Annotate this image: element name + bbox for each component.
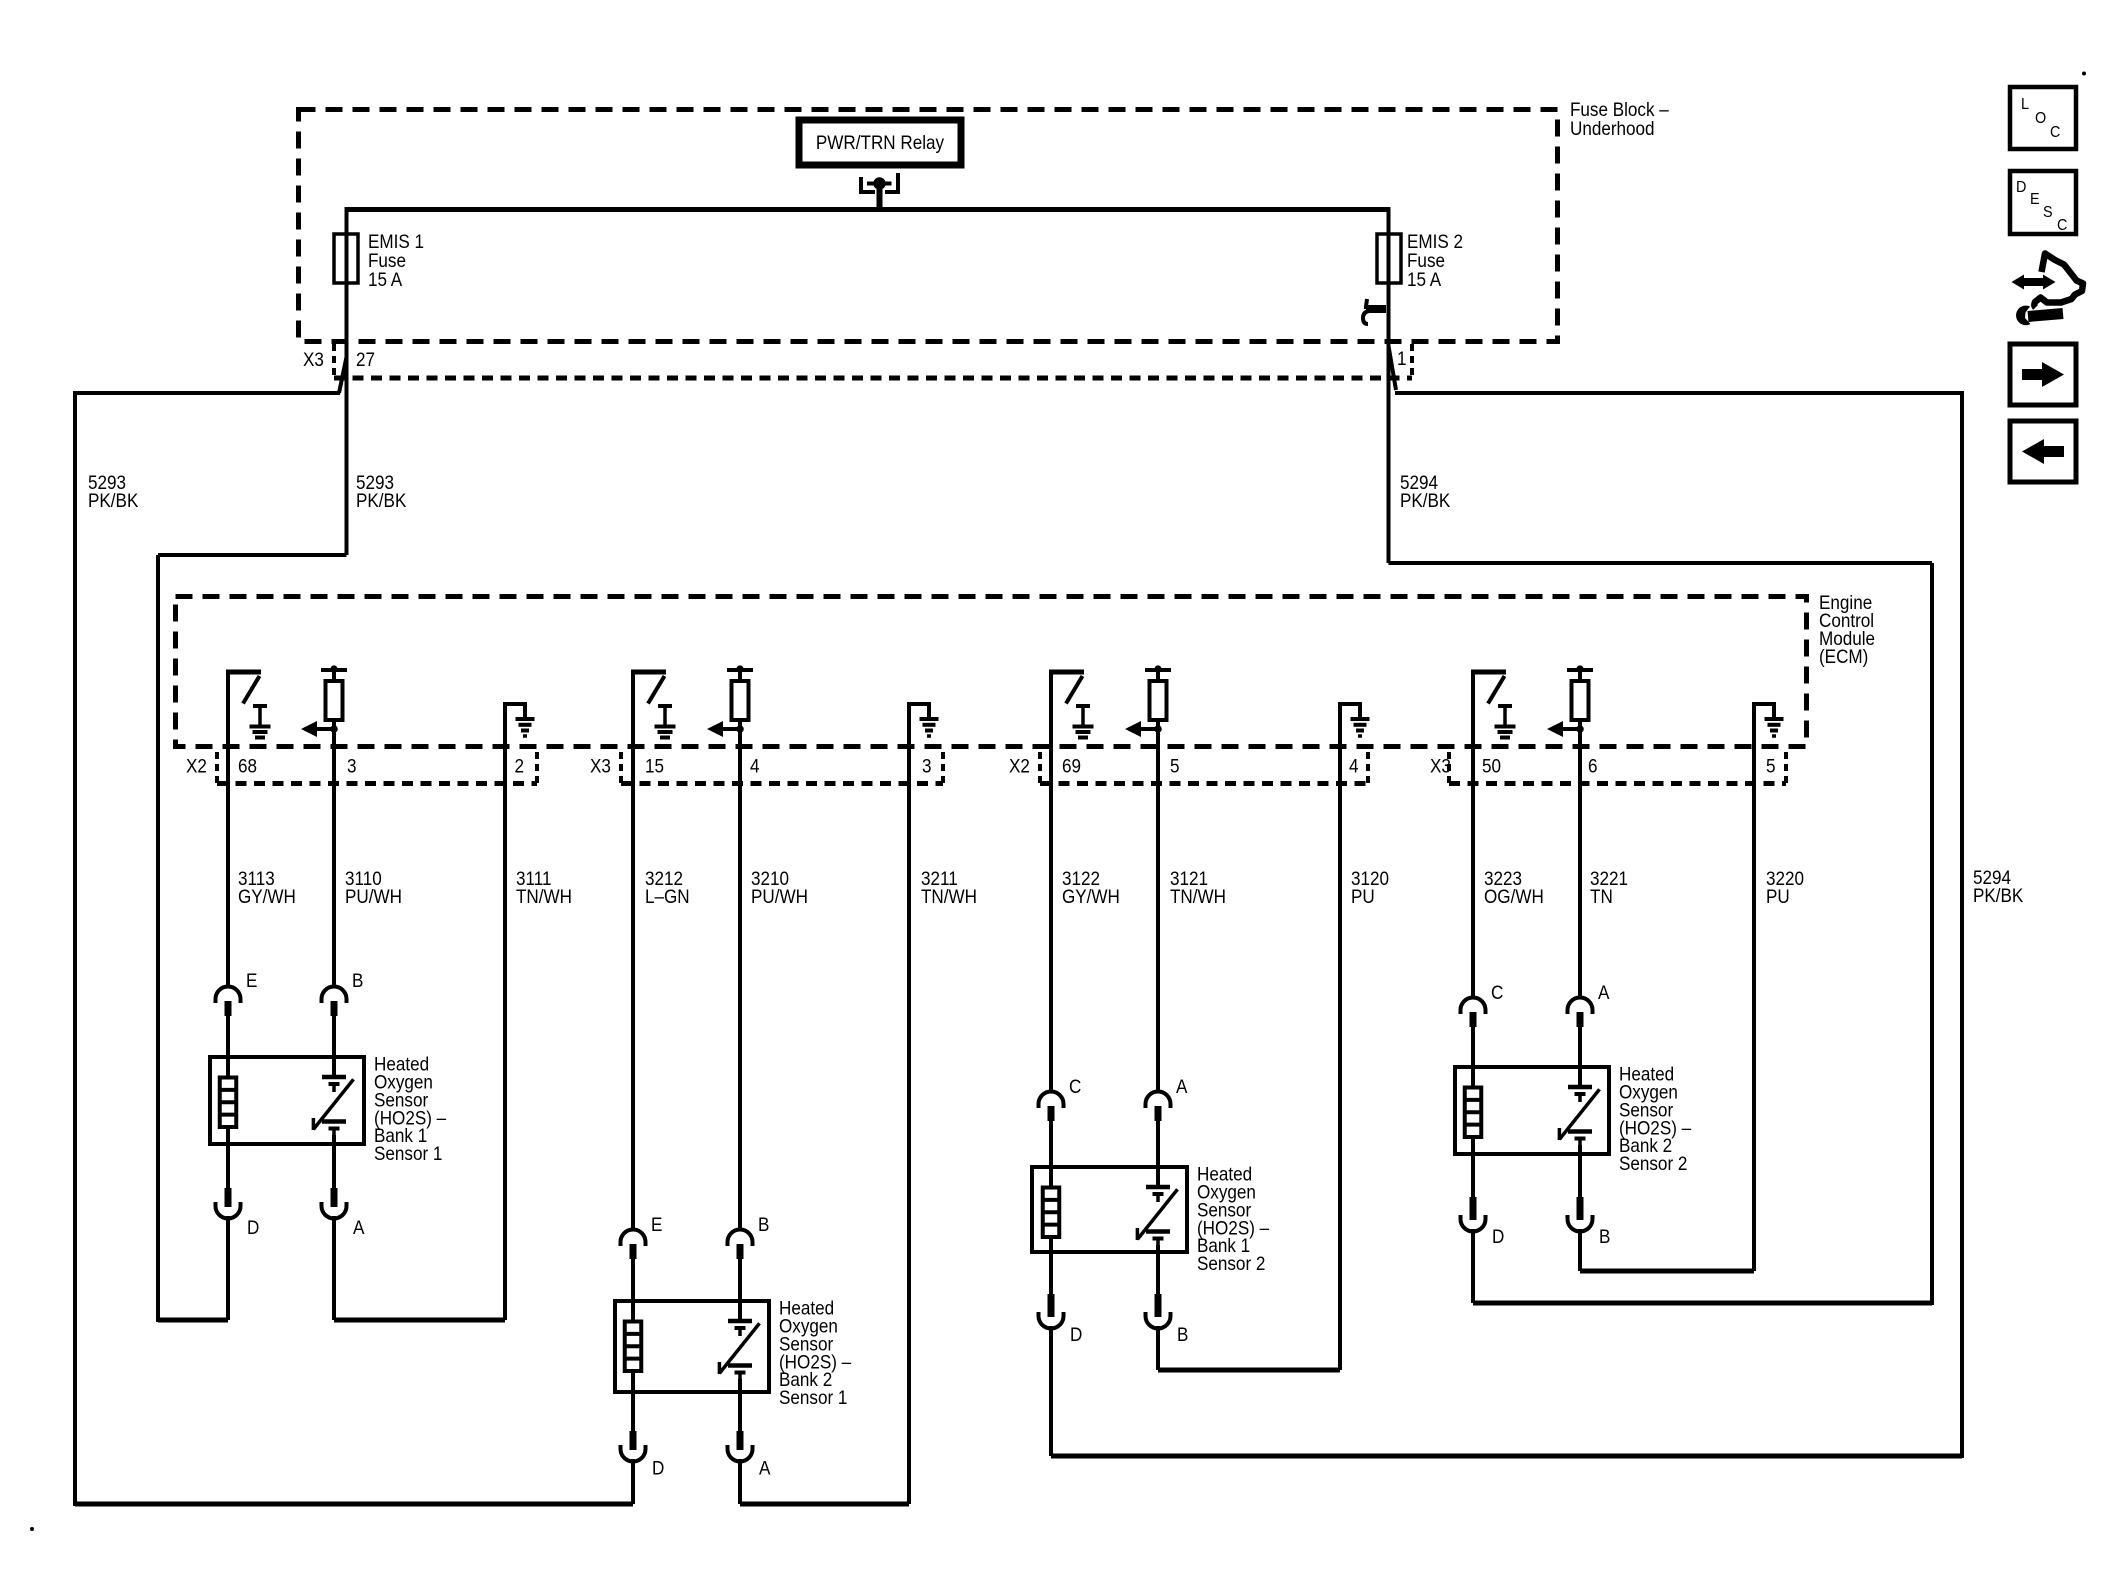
wire into sensor box cell 1 xyxy=(332,1015,336,1077)
icon car with arrows and wrench xyxy=(2012,254,2084,326)
page artifact dots xyxy=(2082,72,2086,76)
svg-text:D: D xyxy=(247,1217,259,1238)
wire cell out 1 xyxy=(332,1135,336,1188)
wire heater return horiz 4 xyxy=(1473,1301,1932,1306)
sensor cell / battery (group 1) xyxy=(322,1075,346,1080)
wire cell return down 3 xyxy=(1156,1326,1160,1370)
wire into sensor box heater 2 xyxy=(631,1258,635,1322)
wire 5293 left vertical xyxy=(73,391,77,1506)
ECM bias resistor pin (group 3) xyxy=(1145,668,1171,672)
svg-text:3: 3 xyxy=(922,756,932,777)
connector stub left X3 xyxy=(332,344,336,378)
connector B (group 2) xyxy=(728,1230,753,1247)
connector A (group 3) xyxy=(1146,1092,1171,1109)
sensor cell / battery (group 3) xyxy=(1146,1185,1170,1190)
wire signal 4 xyxy=(1578,746,1582,999)
wire into sensor box cell 3 xyxy=(1156,1120,1160,1187)
svg-text:1: 1 xyxy=(1397,348,1407,369)
wire signal 1 xyxy=(332,746,336,988)
svg-text:2: 2 xyxy=(515,756,525,777)
svg-text:50: 50 xyxy=(1482,756,1501,777)
ECM connector rows (dotted) xyxy=(217,781,537,786)
wire heater return down 1 xyxy=(226,1216,230,1320)
svg-text:Sensor 1: Sensor 1 xyxy=(779,1387,847,1408)
wire ground return up 3 xyxy=(1338,748,1342,1370)
svg-text:3: 3 xyxy=(347,756,357,777)
svg-text:15: 15 xyxy=(645,756,664,777)
svg-text:TN/WH: TN/WH xyxy=(1170,886,1226,907)
wire bus to EMIS2 fuse xyxy=(1387,207,1391,286)
svg-text:TN: TN xyxy=(1590,886,1613,907)
wire into sensor box heater 1 xyxy=(226,1015,230,1078)
heater element (group 1) xyxy=(220,1078,237,1128)
wire cell return horiz 1 xyxy=(334,1318,505,1323)
svg-text:PK/BK: PK/BK xyxy=(1973,885,2023,906)
svg-text:5: 5 xyxy=(1766,756,1776,777)
sensor cell / battery (group 2) xyxy=(728,1319,752,1324)
svg-text:C: C xyxy=(1491,982,1503,1003)
svg-text:69: 69 xyxy=(1062,756,1081,777)
svg-text:C: C xyxy=(2050,123,2060,141)
wire into sensor box heater 3 xyxy=(1049,1120,1053,1188)
svg-text:15 A: 15 A xyxy=(1407,269,1442,290)
svg-text:X3: X3 xyxy=(303,349,324,370)
connector C (group 3) xyxy=(1039,1092,1064,1109)
svg-text:PU/WH: PU/WH xyxy=(345,886,402,907)
svg-text:Fuse Block –: Fuse Block – xyxy=(1570,99,1670,120)
svg-text:E: E xyxy=(2030,190,2040,208)
connector stub right pin1 xyxy=(1410,344,1414,378)
wire EMIS2 fuse down xyxy=(1387,232,1391,563)
wire heater control 4 xyxy=(1471,746,1475,999)
svg-text:(ECM): (ECM) xyxy=(1819,646,1868,667)
svg-text:B: B xyxy=(758,1214,769,1235)
relay output terminal (dot + brackets) xyxy=(861,173,898,212)
svg-text:TN/WH: TN/WH xyxy=(921,886,977,907)
svg-text:Fuse: Fuse xyxy=(1407,250,1445,271)
ECM low-side driver pin (group 4) xyxy=(1471,672,1475,748)
svg-text:B: B xyxy=(1177,1324,1188,1345)
svg-text:GY/WH: GY/WH xyxy=(238,886,296,907)
svg-text:L: L xyxy=(2021,95,2029,113)
connector A (group 4) xyxy=(1568,997,1593,1014)
icon LOC box xyxy=(2010,87,2076,149)
svg-text:B: B xyxy=(352,970,363,991)
heater element (group 2) xyxy=(625,1322,642,1372)
svg-text:4: 4 xyxy=(750,756,760,777)
wire signal 2 xyxy=(738,746,742,1231)
wire heater return horiz 3 xyxy=(1051,1454,1962,1459)
wire heater out 1 xyxy=(226,1127,230,1188)
wire cell out 3 xyxy=(1156,1245,1160,1294)
wire cell return horiz 4 xyxy=(1580,1269,1754,1274)
wire cell return down 4 xyxy=(1578,1229,1582,1271)
ECM ground reference pin (group 4) xyxy=(1754,704,1774,748)
svg-text:S: S xyxy=(2043,203,2053,221)
svg-text:D: D xyxy=(652,1458,664,1479)
heater element (group 4) xyxy=(1465,1088,1482,1138)
svg-text:68: 68 xyxy=(238,756,257,777)
ECM low-side driver pin (group 1) xyxy=(226,672,230,748)
svg-text:6: 6 xyxy=(1588,756,1598,777)
connector D (group 4) xyxy=(1470,1197,1477,1220)
svg-text:15 A: 15 A xyxy=(368,269,403,290)
ECM ground reference pin (group 2) xyxy=(909,704,929,748)
svg-text:X3: X3 xyxy=(1430,756,1451,777)
svg-text:E: E xyxy=(246,970,257,991)
svg-text:X3: X3 xyxy=(590,756,611,777)
wire branch right y393 xyxy=(1395,391,1962,395)
svg-text:PK/BK: PK/BK xyxy=(1400,490,1450,511)
wire jog diagonal at connector pin 1 xyxy=(1389,346,1397,390)
svg-text:A: A xyxy=(1176,1076,1188,1097)
connector A (group 1) xyxy=(331,1188,338,1207)
heater element (group 3) xyxy=(1043,1188,1060,1238)
wire cell return horiz 2 xyxy=(740,1502,909,1507)
svg-text:A: A xyxy=(1598,982,1610,1003)
wire heater return down 4 xyxy=(1471,1229,1475,1303)
wire cell out 4 xyxy=(1578,1145,1582,1197)
sensor box (group 4) xyxy=(1455,1067,1609,1154)
wire bus from relay xyxy=(347,207,1388,212)
svg-text:PK/BK: PK/BK xyxy=(356,490,406,511)
wire jog diagonal at connector X3-27 xyxy=(339,357,347,393)
connector E (group 1) xyxy=(216,987,241,1004)
icon forward arrow box xyxy=(2010,344,2076,405)
connector D (group 1) xyxy=(225,1188,232,1207)
wire EMIS1 fuse down to branch xyxy=(345,232,349,555)
svg-text:27: 27 xyxy=(356,349,375,370)
wire heater return down 2 xyxy=(631,1459,635,1504)
wire 5293 inner vertical xyxy=(156,555,160,1322)
svg-text:C: C xyxy=(1069,1076,1081,1097)
fuse F2 EMIS 2 15A xyxy=(1377,234,1401,283)
svg-text:PU: PU xyxy=(1766,886,1790,907)
connector C (group 4) xyxy=(1461,997,1486,1014)
svg-text:Underhood: Underhood xyxy=(1570,118,1655,139)
fuse block - underhood (dashed enclosure) xyxy=(299,110,1558,342)
svg-text:Sensor 1: Sensor 1 xyxy=(374,1143,442,1164)
svg-text:Fuse: Fuse xyxy=(368,250,406,271)
sensor box (group 3) xyxy=(1032,1167,1187,1252)
svg-text:E: E xyxy=(651,1214,662,1235)
wire 5294 inner vertical xyxy=(1930,563,1934,1305)
wire branch y555 xyxy=(158,553,347,557)
svg-text:TN/WH: TN/WH xyxy=(516,886,572,907)
svg-text:GY/WH: GY/WH xyxy=(1062,886,1120,907)
svg-text:X2: X2 xyxy=(1009,756,1030,777)
ECM bias resistor pin (group 4) xyxy=(1567,668,1593,672)
svg-text:Sensor 2: Sensor 2 xyxy=(1197,1253,1265,1274)
connector E (group 2) xyxy=(621,1230,646,1247)
wire ground return up 2 xyxy=(907,748,911,1504)
svg-text:L–GN: L–GN xyxy=(645,886,690,907)
connector B (group 3) xyxy=(1155,1294,1162,1317)
ECM ground reference pin (group 1) xyxy=(505,704,525,748)
svg-text:5: 5 xyxy=(1170,756,1180,777)
clip symbol under EMIS2 fuse xyxy=(1363,299,1386,324)
wire signal 3 xyxy=(1156,746,1160,1093)
connector B (group 4) xyxy=(1577,1197,1584,1220)
ECM low-side driver pin (group 2) xyxy=(631,672,635,748)
sensor box (group 2) xyxy=(615,1301,769,1392)
wire ground return up 1 xyxy=(503,748,507,1320)
wire ground return up 4 xyxy=(1752,748,1756,1271)
wire heater out 2 xyxy=(631,1371,635,1431)
ECM ground reference pin (group 3) xyxy=(1340,704,1360,748)
ECM bias resistor pin (group 1) xyxy=(321,668,347,672)
ECM low-side driver pin (group 3) xyxy=(1049,672,1053,748)
svg-text:OG/WH: OG/WH xyxy=(1484,886,1544,907)
wire heater out 3 xyxy=(1049,1237,1053,1294)
connector B (group 1) xyxy=(322,987,347,1004)
svg-text:PK/BK: PK/BK xyxy=(88,490,138,511)
connector A (group 2) xyxy=(737,1431,744,1450)
wire heater out 4 xyxy=(1471,1137,1475,1197)
svg-text:O: O xyxy=(2035,109,2046,127)
icon back arrow box xyxy=(2010,421,2076,482)
wire cell return down 2 xyxy=(738,1459,742,1504)
fuse F1 EMIS 1 15A xyxy=(334,234,358,283)
svg-text:C: C xyxy=(2057,216,2067,234)
svg-text:PU: PU xyxy=(1351,886,1375,907)
svg-text:PWR/TRN Relay: PWR/TRN Relay xyxy=(816,132,944,153)
wire heater control 3 xyxy=(1049,746,1053,1093)
svg-text:X2: X2 xyxy=(186,756,207,777)
connector D (group 2) xyxy=(630,1431,637,1450)
svg-text:PU/WH: PU/WH xyxy=(751,886,808,907)
wire heater return down 3 xyxy=(1049,1326,1053,1456)
wire heater control 1 xyxy=(226,746,230,988)
ECM (Engine Control Module) dashed box xyxy=(176,597,1807,747)
sensor box (group 1) xyxy=(210,1057,364,1144)
wire heater return horiz 2 xyxy=(75,1502,633,1507)
svg-text:4: 4 xyxy=(1349,756,1359,777)
svg-text:A: A xyxy=(353,1217,365,1238)
svg-text:A: A xyxy=(759,1458,771,1479)
wire 5294 right vertical xyxy=(1960,391,1964,1458)
svg-text:D: D xyxy=(2016,178,2026,196)
wire branch y563 xyxy=(1389,561,1933,565)
wire into sensor box cell 2 xyxy=(738,1258,742,1321)
svg-text:Sensor 2: Sensor 2 xyxy=(1619,1153,1687,1174)
wire cell return down 1 xyxy=(332,1216,336,1320)
ECM bias resistor pin (group 2) xyxy=(727,668,753,672)
relay K (PWR/TRN Relay) box xyxy=(799,120,961,165)
svg-text:B: B xyxy=(1599,1226,1610,1247)
wire branch left y393 xyxy=(75,391,340,395)
icon DESC box xyxy=(2010,171,2076,234)
wire into sensor box cell 4 xyxy=(1578,1026,1582,1087)
wire into sensor box heater 4 xyxy=(1471,1026,1475,1088)
connector D (group 3) xyxy=(1048,1294,1055,1317)
wire heater return horiz 1 xyxy=(158,1318,228,1323)
wire bus to EMIS1 fuse xyxy=(345,207,349,286)
svg-text:D: D xyxy=(1070,1324,1082,1345)
svg-text:EMIS 2: EMIS 2 xyxy=(1407,231,1463,252)
connector row X3 (dotted) xyxy=(334,376,1412,381)
svg-text:D: D xyxy=(1492,1226,1504,1247)
sensor cell / battery (group 4) xyxy=(1568,1085,1592,1090)
wire heater control 2 xyxy=(631,746,635,1231)
wire cell out 2 xyxy=(738,1379,742,1431)
svg-text:EMIS 1: EMIS 1 xyxy=(368,231,424,252)
wire cell return horiz 3 xyxy=(1158,1368,1340,1373)
